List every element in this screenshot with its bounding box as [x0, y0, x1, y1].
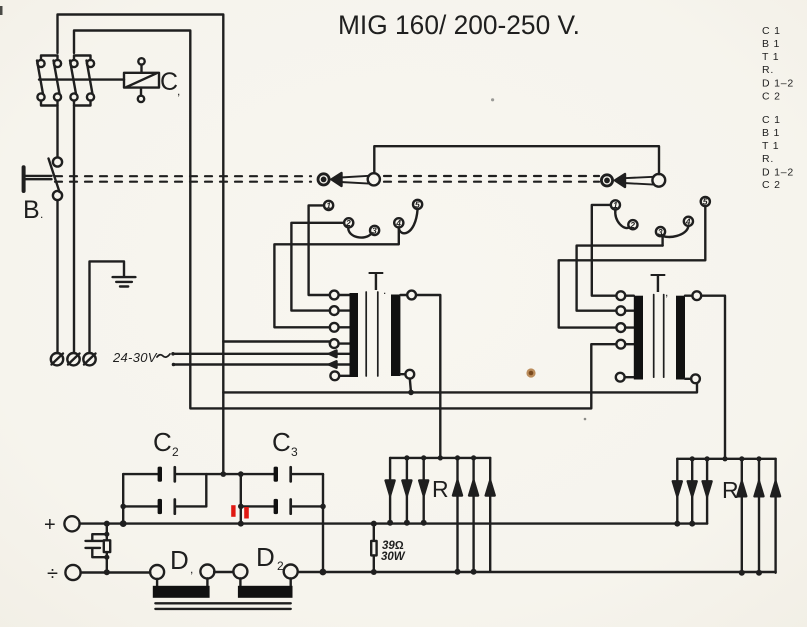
left tap selector: terminal 5: [413, 200, 422, 210]
junction dots capacitor network: [120, 471, 325, 509]
right selector link arc 1-2: [615, 210, 629, 229]
svg-text:T: T: [650, 268, 666, 298]
legend block 2: [762, 114, 794, 191]
choke D1: [150, 565, 214, 598]
wire tap5 to T1R primary row3: [559, 206, 706, 328]
red mark II: [231, 505, 249, 518]
svg-text:R: R: [722, 477, 739, 503]
junction bus A / T1L secondary: [408, 390, 414, 396]
terminal X3: [83, 353, 95, 365]
wire T1L secondary top to rectifier R1: [416, 295, 440, 458]
terminal X2: [67, 353, 79, 365]
wire tap1 to T1R primary row1: [592, 205, 617, 296]
right tap selector: terminal 1: [611, 200, 620, 210]
snubber junction dots: [104, 532, 109, 560]
bus A y=392.4: [223, 383, 697, 392]
svg-text:3: 3: [372, 226, 377, 236]
right tap selector: terminal 5: [701, 197, 710, 207]
ground wire from terminal 3: [90, 261, 125, 353]
ground symbol: [113, 277, 136, 286]
output terminal minus: [47, 563, 81, 585]
label D1: [170, 545, 193, 576]
bus minus y=572: [81, 571, 776, 574]
right selector link arc 3-4: [662, 226, 688, 237]
svg-text:.: .: [40, 207, 43, 221]
junction dots on minus bus: [104, 569, 762, 576]
svg-text:3: 3: [291, 445, 298, 459]
label D2: [256, 542, 284, 573]
rectifier bank R1 top bar: [390, 457, 490, 459]
svg-text:B: B: [23, 196, 40, 224]
transformer T1 left: core lines: [366, 292, 378, 376]
legend block 1: [762, 25, 794, 103]
capacitor mid vertical x=240.8: [240, 474, 242, 523]
svg-text:1: 1: [326, 201, 331, 211]
speck gray dot 2: [584, 418, 587, 421]
svg-text:B 1: B 1: [762, 38, 780, 50]
transformer T1 left: secondary winding bar: [391, 295, 400, 377]
svg-text:D: D: [256, 542, 275, 572]
wire T1R secondary top to rectifier R2: [701, 296, 725, 459]
transformer T1 right: secondary terminals: [685, 291, 701, 383]
transformer T1 left: secondary terminals: [400, 291, 416, 379]
svg-text:T: T: [368, 266, 384, 296]
R1 diode leg 4: [453, 458, 462, 572]
stain brown spot: [526, 368, 535, 377]
R2 diode leg 2: [688, 459, 697, 524]
wire T1L secondary bottom to bus A: [410, 379, 411, 393]
svg-text:C 1: C 1: [762, 114, 781, 126]
transformer T1 left: primary winding bar: [350, 293, 359, 377]
wire tap2 to T1L primary row2: [291, 223, 344, 311]
svg-text:T 1: T 1: [762, 51, 779, 63]
svg-text:C 2: C 2: [762, 91, 781, 103]
svg-text:MIG 160/ 200-250 V.: MIG 160/ 200-250 V.: [338, 10, 580, 40]
svg-text:C 2: C 2: [762, 179, 781, 191]
svg-text:.: .: [383, 283, 386, 297]
rotary wiper right: [601, 174, 665, 187]
capacitor group C2 label: [153, 427, 179, 459]
transformer T1 right: core lines: [654, 295, 664, 378]
left tap selector: terminal 3: [370, 226, 379, 236]
capacitor C2b plates: [158, 499, 175, 514]
wire top feed 1 (y=14.5 to right vertical x=223.3 down to capacitor row): [58, 15, 224, 475]
dashed linkage lines: [55, 176, 599, 182]
svg-text:D 1–2: D 1–2: [762, 78, 794, 90]
left selector link arc 2-3: [348, 227, 371, 237]
svg-text:30W: 30W: [381, 551, 406, 563]
svg-text:C 1: C 1: [762, 25, 781, 37]
right tap selector: terminal 2: [628, 220, 637, 230]
wire 24-30V line b: [172, 361, 350, 368]
capacitor C2 right rail: [205, 474, 207, 506]
right tap selector: terminal 3: [656, 227, 665, 237]
right tap selector: terminal 4: [684, 217, 693, 227]
contactor linkage: [39, 78, 124, 80]
transformer T1 right: primary terminals: [616, 291, 634, 381]
transformer T1 right: label: [650, 268, 668, 299]
svg-text:,: ,: [665, 285, 668, 299]
label B1: [23, 196, 43, 224]
svg-text:D: D: [170, 545, 189, 575]
squiggle after 24-30V: [157, 354, 170, 357]
svg-text:C: C: [153, 427, 172, 457]
R1 junction dots on bar: [404, 455, 476, 460]
R1 diode leg 1: [386, 458, 395, 523]
capacitor row2 wire segments: [123, 505, 323, 507]
label C1: [160, 68, 180, 98]
svg-text:2: 2: [172, 445, 179, 459]
svg-text:D 1–2: D 1–2: [762, 167, 794, 179]
label 39ohm 30W: [381, 540, 406, 563]
R1 diode leg 5: [469, 458, 478, 572]
wire tap4 to T1L primary row3: [274, 227, 398, 327]
transformer T1 left: label: [368, 266, 386, 297]
terminal X1: [51, 353, 63, 365]
left tap selector: terminal 1: [324, 201, 333, 211]
edge mark top-left: [0, 6, 3, 15]
snubber capacitor branch: [86, 534, 107, 557]
transformer T1 left: primary terminals: [330, 291, 350, 381]
svg-text:÷: ÷: [47, 563, 58, 585]
choke D2: [233, 565, 297, 598]
svg-text:,: ,: [190, 562, 193, 576]
rectifier bank R2 top bar: [677, 458, 775, 460]
snubber resistor box: [104, 540, 110, 552]
title MIG 160/200-250V: [338, 10, 580, 40]
capacitor right rail x=323: [322, 474, 324, 572]
wire 24-30V line a: [171, 351, 349, 358]
R2 diode leg 1: [673, 459, 682, 524]
R2 diode leg 6: [771, 459, 780, 573]
R2 junction dots on bar: [690, 456, 762, 461]
transformer T1 right: primary winding bar: [634, 296, 643, 380]
left selector link arc 4-5: [399, 209, 418, 233]
coil C1: [124, 58, 159, 102]
wire tap1 to T1L primary row1: [309, 205, 330, 295]
svg-text:24-30V: 24-30V: [112, 350, 158, 365]
R2 diode leg 4: [737, 459, 746, 573]
rotary wiper left: [318, 146, 659, 186]
output terminal plus: [44, 514, 80, 536]
left tap selector: terminal 4: [394, 218, 403, 228]
snubber branch wire: [106, 524, 108, 572]
switch B1: [24, 157, 63, 353]
right selector stub 3: [661, 236, 663, 246]
capacitor C3b plates: [274, 499, 291, 514]
svg-text:C: C: [160, 68, 178, 96]
R2 diode leg 3: [703, 459, 712, 524]
capacitor row1 wire segments: [123, 473, 323, 475]
R1 diode leg 6: [486, 458, 495, 572]
bus plus y=523.3: [80, 522, 708, 524]
svg-text:R.: R.: [762, 153, 774, 165]
svg-text:C: C: [272, 427, 291, 457]
svg-text:R: R: [432, 476, 449, 502]
resistor 39 ohm: [371, 524, 376, 572]
svg-text:T 1: T 1: [762, 140, 779, 152]
speck gray dot 1: [491, 98, 494, 101]
choke common core double line: [155, 603, 290, 609]
svg-text:B 1: B 1: [762, 127, 780, 139]
svg-text:,: ,: [177, 84, 180, 98]
left tap selector: terminal 2: [344, 218, 353, 228]
svg-text:2: 2: [629, 220, 635, 230]
capacitor C2a plates: [158, 467, 175, 482]
R1 diode leg 2: [402, 458, 411, 523]
label 24-30V: [112, 350, 158, 365]
contactor C1 main contacts: [37, 56, 94, 353]
capacitor left rail: [122, 474, 124, 523]
wire x=223.3 to T1L primary row4: [223, 342, 330, 344]
capacitor group C3 label: [272, 427, 298, 459]
capacitor C3a plates: [274, 467, 291, 482]
R2 diode leg 5: [755, 459, 764, 573]
svg-text:R.: R.: [762, 64, 774, 76]
wire tap3 to T1R primary row2: [577, 246, 663, 311]
svg-text:2: 2: [277, 559, 284, 573]
svg-text:+: +: [44, 514, 56, 536]
R1 diode leg 3: [419, 458, 428, 523]
junction dots on plus bus: [104, 520, 695, 527]
transformer T1 right: secondary winding bar: [676, 296, 685, 380]
wire top feed 2 (y=30.5 to vertical x=190.3, bus B y=408.4, up to T1R row4): [74, 31, 616, 409]
